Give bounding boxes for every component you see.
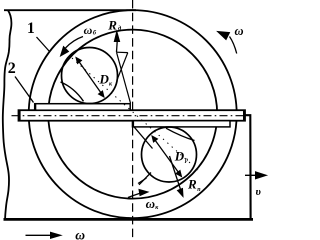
svg-text:R: R xyxy=(187,177,197,192)
top plate left cap xyxy=(34,103,36,110)
svg-text:υ: υ xyxy=(256,186,262,198)
main bar right end cap xyxy=(243,110,245,121)
svg-text:ω: ω xyxy=(146,196,155,211)
right block edge xyxy=(246,115,251,218)
svg-text:р: р xyxy=(184,157,188,163)
Rp radius arrow xyxy=(170,156,184,197)
Dk diameter double arrow xyxy=(76,58,104,98)
svg-text:D: D xyxy=(174,148,185,163)
top plate xyxy=(35,104,131,111)
under plate left cap xyxy=(132,120,134,127)
omega top-right curved arrow xyxy=(218,32,237,54)
main bar (strip) xyxy=(19,110,246,121)
upper roll circle xyxy=(62,48,118,104)
lower roll circle xyxy=(142,127,197,182)
outer ring circle xyxy=(29,10,237,218)
label 2 leader xyxy=(15,77,34,103)
vertical center line (dashed) xyxy=(132,0,134,240)
v exit arrow xyxy=(245,172,267,179)
bottom housing line xyxy=(4,218,254,221)
under plate xyxy=(133,121,231,127)
omega_v curved arrow (ring rotation, upper left) xyxy=(61,37,84,57)
bottom omega arrow xyxy=(26,232,62,238)
upper deformation wedge xyxy=(117,52,131,103)
svg-text:1: 1 xyxy=(27,20,35,37)
svg-text:ω: ω xyxy=(84,23,93,37)
label 1 leader xyxy=(37,37,50,52)
lower roll contact lens xyxy=(166,128,195,140)
svg-text:2: 2 xyxy=(8,60,16,77)
left torn edge xyxy=(3,10,12,219)
inner ring circle xyxy=(48,30,217,199)
upper roll contact lens xyxy=(61,82,84,101)
svg-text:R: R xyxy=(107,18,117,33)
svg-text:ω: ω xyxy=(75,228,85,240)
main bar left end cap xyxy=(18,110,21,121)
dotted diagonal through roll centers xyxy=(72,58,198,170)
omega_k curved arrow (lower roll rotation) xyxy=(128,190,148,198)
Dp diameter double arrow xyxy=(152,136,182,177)
horizontal center line (dash-dot) through bar xyxy=(12,115,246,117)
Rd radius arrow xyxy=(114,32,119,53)
lower deformation wedge + diagonal xyxy=(134,127,153,185)
top housing line xyxy=(4,9,136,11)
svg-text:D: D xyxy=(99,72,110,87)
svg-text:ω: ω xyxy=(235,24,244,38)
